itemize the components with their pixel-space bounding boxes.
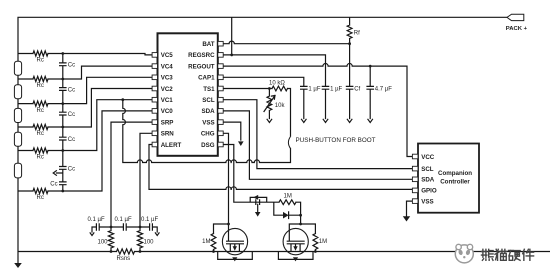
svg-text:SCL: SCL	[202, 97, 215, 104]
svg-text:DSG: DSG	[201, 142, 215, 149]
svg-text:1M: 1M	[202, 239, 210, 245]
svg-text:VC3: VC3	[161, 75, 174, 82]
svg-text:VC2: VC2	[161, 86, 174, 93]
svg-text:VSS: VSS	[202, 119, 214, 126]
svg-text:ALERT: ALERT	[161, 142, 182, 149]
svg-text:Cf: Cf	[354, 86, 360, 92]
svg-text:Rf: Rf	[354, 31, 360, 37]
svg-text:SDA: SDA	[202, 108, 216, 115]
svg-text:REGOUT: REGOUT	[188, 63, 215, 70]
svg-text:Rc: Rc	[37, 195, 44, 201]
svg-text:0.1 µF: 0.1 µF	[115, 217, 132, 223]
svg-text:VC0: VC0	[161, 108, 174, 115]
svg-text:Rsns: Rsns	[117, 256, 131, 262]
svg-text:REGSRC: REGSRC	[188, 52, 215, 59]
svg-text:1 µF: 1 µF	[308, 86, 320, 92]
svg-text:0.1 µF: 0.1 µF	[141, 217, 158, 223]
svg-text:Cc: Cc	[68, 166, 75, 172]
svg-text:1M: 1M	[284, 194, 292, 200]
svg-text:Rc: Rc	[37, 108, 44, 114]
svg-text:VC1: VC1	[161, 97, 174, 104]
svg-text:4.7 µF: 4.7 µF	[375, 86, 392, 92]
svg-text:Cc: Cc	[68, 87, 75, 93]
svg-text:1M: 1M	[319, 239, 327, 245]
svg-text:BAT: BAT	[202, 41, 214, 48]
svg-text:PUSH-BUTTON FOR BOOT: PUSH-BUTTON FOR BOOT	[296, 137, 376, 144]
svg-text:VC4: VC4	[161, 63, 174, 70]
svg-text:10 kΩ: 10 kΩ	[269, 80, 285, 86]
svg-text:Rc: Rc	[37, 83, 44, 89]
svg-text:VC5: VC5	[161, 52, 174, 59]
svg-text:Controller: Controller	[440, 179, 470, 186]
svg-text:0.1 µF: 0.1 µF	[88, 217, 105, 223]
svg-text:100: 100	[97, 240, 108, 246]
svg-text:SRN: SRN	[161, 131, 175, 138]
svg-text:10k: 10k	[275, 103, 286, 109]
svg-text:CHG: CHG	[201, 131, 215, 138]
svg-text:CAP1: CAP1	[198, 75, 215, 82]
svg-text:SDA: SDA	[421, 177, 435, 184]
svg-text:1 µF: 1 µF	[330, 86, 342, 92]
svg-text:Cc: Cc	[68, 63, 75, 69]
svg-text:100: 100	[144, 240, 155, 246]
svg-text:Cc: Cc	[68, 137, 75, 143]
svg-text:Rc: Rc	[37, 131, 44, 137]
svg-text:Companion: Companion	[438, 170, 472, 177]
svg-text:SCL: SCL	[421, 166, 434, 173]
svg-text:PACK +: PACK +	[506, 26, 528, 32]
svg-text:Rc: Rc	[37, 58, 44, 64]
svg-text:Cc: Cc	[68, 112, 75, 118]
svg-text:Cc: Cc	[50, 182, 57, 188]
svg-text:SRP: SRP	[161, 119, 174, 126]
svg-text:VSS: VSS	[421, 198, 433, 205]
svg-text:Rc: Rc	[37, 155, 44, 161]
svg-text:TS1: TS1	[203, 86, 215, 93]
svg-text:GPIO: GPIO	[421, 188, 437, 195]
svg-text:VCC: VCC	[421, 154, 435, 161]
